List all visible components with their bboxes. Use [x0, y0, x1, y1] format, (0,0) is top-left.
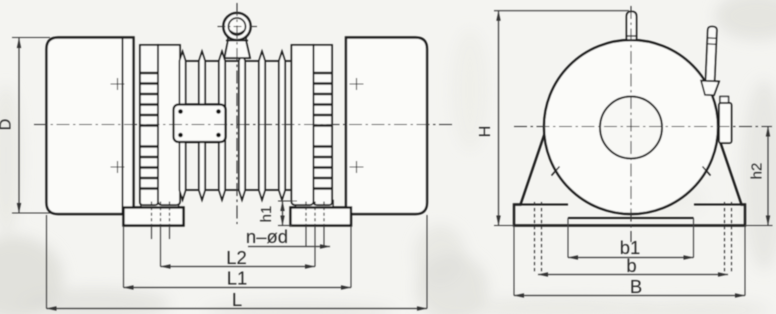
eye bolt ring outer [223, 13, 250, 40]
top eye stud [627, 12, 637, 41]
right bearing flange ribbed strip [314, 45, 333, 205]
cooling fin 4 [239, 52, 245, 200]
left foot bolt hole dashed lines [152, 202, 170, 227]
side stud [706, 26, 717, 81]
left cap rim line [122, 38, 124, 215]
h1 dimension line [282, 201, 284, 226]
side stud collar lines [707, 38, 716, 44]
svg-text:H: H [477, 126, 494, 138]
left bearing flange ribbed strip [140, 45, 158, 205]
n-ød leader line [248, 246, 330, 248]
terminal cover edge plate [719, 103, 732, 143]
base plate top left segment [521, 204, 569, 206]
right view foot hole dashed lines left [535, 202, 542, 272]
B dimension line [514, 295, 745, 297]
pedestal outline [514, 131, 745, 226]
h1 top extension [278, 200, 297, 202]
channel block top line [568, 217, 694, 219]
B extension lines [514, 226, 745, 296]
right view vertical centerline [630, 6, 632, 242]
svg-text:h2: h2 [749, 163, 766, 180]
b1 dimension line [568, 257, 694, 259]
svg-text:L1: L1 [227, 268, 248, 289]
L dimension line [47, 308, 428, 310]
base plate top right segment [694, 204, 742, 206]
terminal box [174, 105, 226, 143]
shaft hole circle [600, 97, 662, 159]
cooling fin 2 [199, 52, 205, 200]
side stud boss [700, 81, 719, 96]
h1 bottom extension [278, 225, 292, 227]
eye bolt ring inner [229, 18, 246, 35]
L2 dimension line [161, 266, 316, 268]
eye bolt base [225, 41, 251, 59]
right foot hole edge extensions [306, 226, 324, 247]
svg-text:n–ød: n–ød [246, 226, 288, 247]
cooling fin 6 [279, 52, 285, 200]
left foot pad [141, 201, 179, 208]
h2 dimension line [767, 127, 769, 226]
left foot hole edge extensions [152, 226, 170, 239]
right foot bolt hole dashed lines [306, 202, 324, 227]
left cap bolt mark lower [111, 161, 125, 173]
motor body circle [544, 40, 718, 214]
right view foot hole dashed lines right [725, 202, 732, 272]
terminal box bolt BL [178, 133, 183, 138]
cooling fin 3 [219, 52, 225, 200]
L1 extension lines [124, 226, 352, 288]
terminal box bolt TR [216, 109, 221, 114]
side stud assembly [700, 26, 721, 95]
cooling fin 1 [179, 52, 185, 200]
stator body top edge [180, 60, 292, 62]
h2 bottom extension [745, 225, 773, 227]
stator body bottom edge [180, 189, 292, 191]
eye bolt shoulder left [226, 37, 230, 41]
svg-text:B: B [630, 276, 642, 297]
left view horizontal centerline [34, 124, 453, 126]
eye bolt shoulder right [244, 37, 248, 41]
L1 dimension line [124, 287, 352, 289]
terminal box bolt BR [216, 133, 221, 138]
L extension lines [47, 215, 428, 309]
svg-text:L: L [232, 289, 242, 310]
eye bolt inner hook arc [230, 31, 244, 34]
svg-text:L2: L2 [226, 247, 247, 268]
cooling fin 5 [259, 52, 265, 200]
b dimension line [538, 274, 728, 276]
right flange ribs [314, 73, 333, 189]
right foot [291, 208, 352, 226]
L2 extension lines [161, 226, 316, 267]
right end cap [346, 38, 427, 215]
top stud collar line [627, 35, 637, 37]
left end cap (weight cover) [47, 38, 134, 215]
svg-text:h1: h1 [258, 206, 275, 223]
dimension D line [18, 38, 20, 213]
left view vertical centerline [236, 3, 238, 224]
svg-text:D: D [0, 119, 15, 131]
terminal cover small block [720, 97, 729, 104]
H dimension line [498, 11, 500, 226]
H top extension [494, 10, 629, 12]
channel block side extensions [568, 218, 694, 258]
svg-text:b: b [626, 255, 636, 276]
circle tick left [552, 167, 560, 176]
H bottom extension [494, 225, 514, 227]
right flange plain strip [292, 45, 314, 205]
right cap bolt mark upper [350, 78, 364, 90]
terminal box bolt TL [178, 109, 183, 114]
dimension D extension lines [12, 37, 50, 39]
right cap bolt mark lower [350, 161, 364, 173]
left flange ribs [140, 73, 158, 189]
right foot pad [296, 201, 334, 208]
left flange plain strip [158, 45, 180, 205]
circle tick right [703, 167, 711, 176]
eye bolt horizontal centerline [218, 26, 258, 28]
left foot [124, 208, 184, 226]
right view horizontal centerline [514, 126, 772, 128]
left cap bolt mark upper [111, 78, 125, 90]
